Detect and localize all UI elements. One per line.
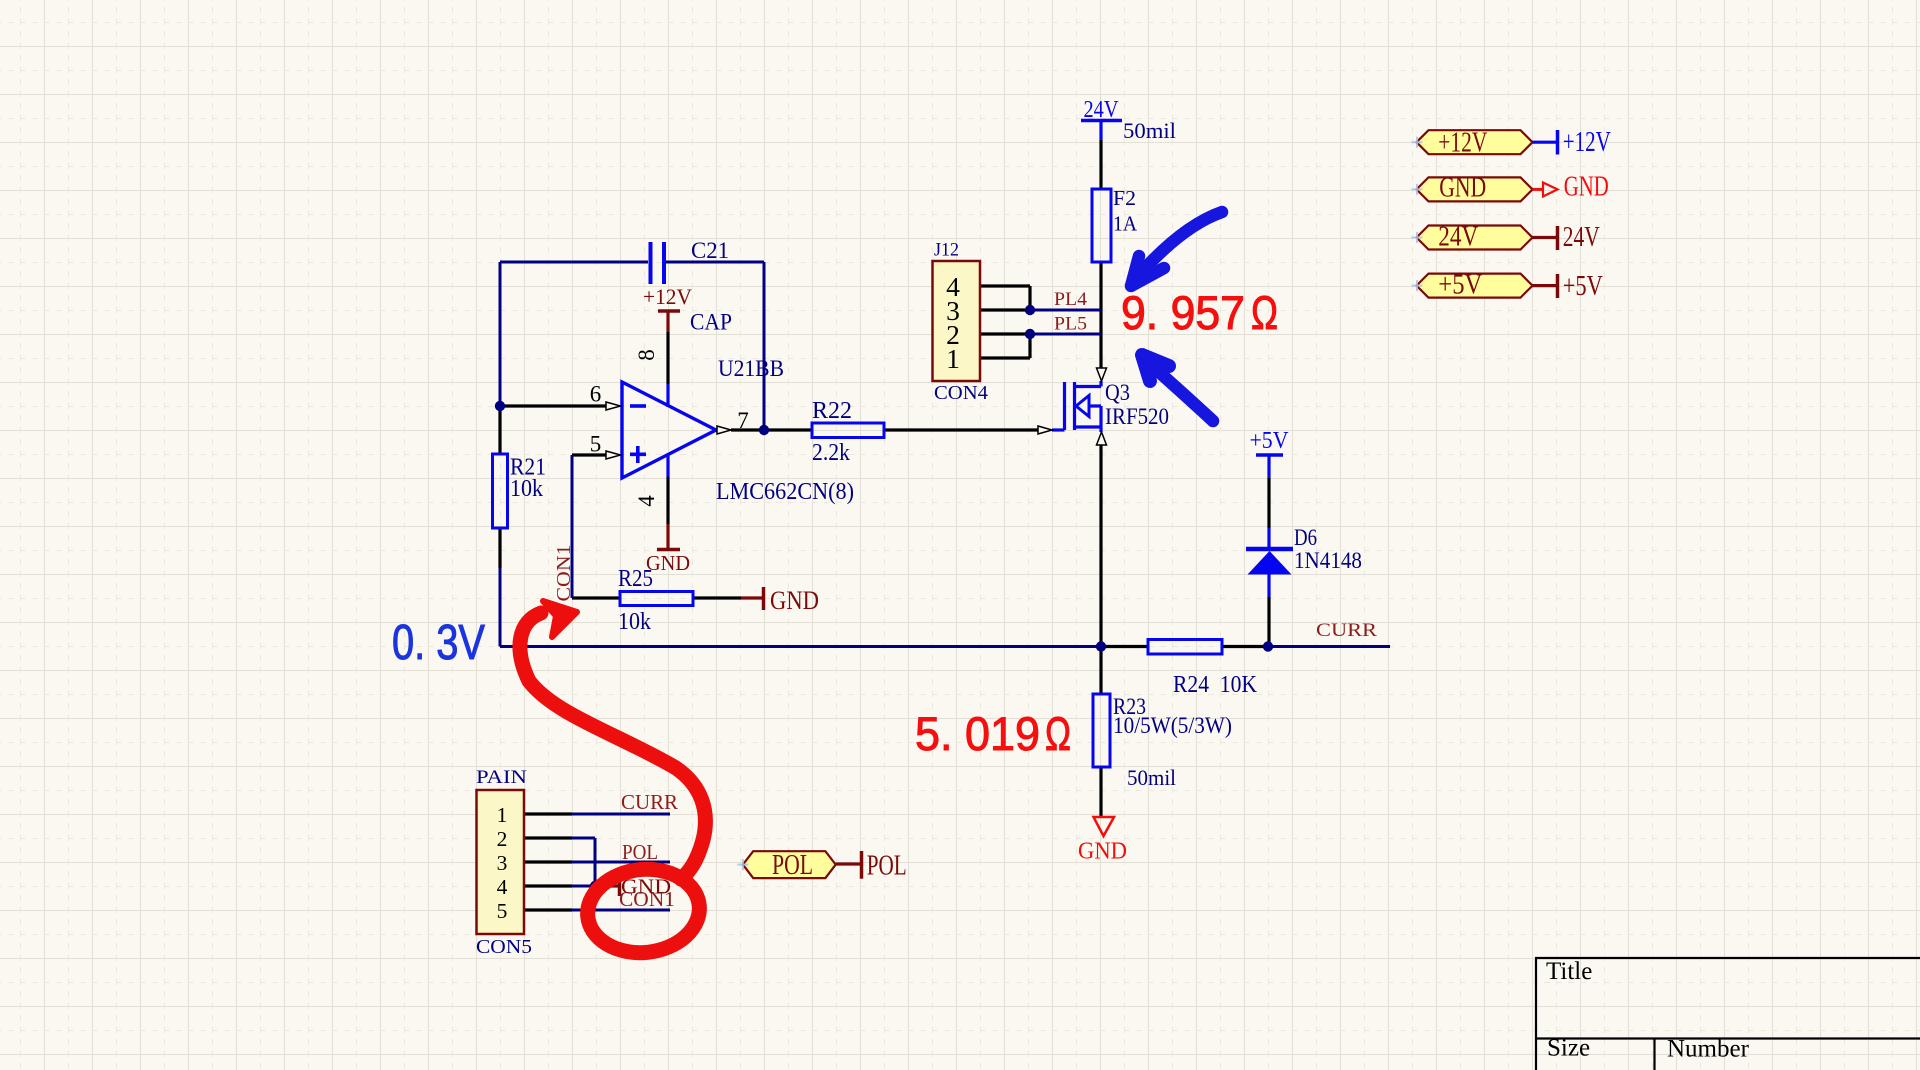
svg-text:+12V: +12V <box>1563 127 1611 158</box>
resistor R23 <box>1093 694 1110 767</box>
CON5 pin number 4 <box>497 875 508 899</box>
svg-text:GND: GND <box>770 586 819 615</box>
wire Q3 source down through junction to R23 (black) <box>1099 445 1102 694</box>
pin number 8 (rotated) <box>634 349 659 361</box>
svg-text:CURR: CURR <box>1316 620 1377 641</box>
power port GND (CON5 pin4) <box>595 875 671 899</box>
svg-text:10/5W(5/3W): 10/5W(5/3W) <box>1113 713 1232 738</box>
power port POL (bar) <box>836 851 907 882</box>
svg-text:+5V: +5V <box>1438 270 1482 301</box>
designator R25 <box>618 566 653 592</box>
svg-text:Number: Number <box>1667 1036 1750 1063</box>
svg-text:R25: R25 <box>618 566 653 592</box>
pin number 5 <box>590 432 602 457</box>
pin arrow Q3 drain <box>1097 368 1107 381</box>
pin arrow Q3 gate <box>1038 426 1052 434</box>
pin number 7 <box>737 408 749 433</box>
designator D6 <box>1294 525 1317 550</box>
J12 pin stubs (black) <box>980 286 1030 358</box>
svg-text:GND: GND <box>1078 838 1127 865</box>
designator J12 <box>934 240 959 261</box>
wire 0.3V main horizontal net (navy) <box>500 645 1390 648</box>
port GND (right) <box>1417 173 1533 204</box>
svg-text:2.2k: 2.2k <box>812 440 850 466</box>
diode D6 1N4148 <box>1246 528 1293 597</box>
svg-text:GND: GND <box>1564 172 1609 203</box>
svg-text:9. 957: 9. 957 <box>1121 286 1245 339</box>
power port GND (red arrow right) <box>1533 172 1609 203</box>
junction node CON5 pin2/pin4 <box>590 881 600 891</box>
svg-text:IRF520: IRF520 <box>1105 404 1169 429</box>
wire 24V to fuse F2 (black) <box>1099 140 1102 189</box>
annotation blue arrow 1 <box>1131 212 1222 286</box>
power port GND (opamp) <box>646 524 690 575</box>
svg-text:6: 6 <box>590 382 602 407</box>
svg-text:PAIN: PAIN <box>476 768 527 788</box>
svg-text:C21: C21 <box>691 238 729 263</box>
port POL <box>743 850 836 881</box>
wire PL4 (navy) <box>1030 309 1101 312</box>
annotation 5.019 ohm (red) <box>915 707 1071 760</box>
power port GND (R23, red arrow) <box>1078 817 1127 865</box>
J12 pin number 1 <box>946 343 960 374</box>
svg-text:CON4: CON4 <box>934 382 988 404</box>
value 1A <box>1113 212 1138 236</box>
designator PAIN <box>476 768 527 788</box>
svg-text:7: 7 <box>737 408 749 433</box>
resistor R25 <box>620 592 693 606</box>
annotation 9.957 ohm (red) <box>1121 286 1278 339</box>
svg-text:0. 3V: 0. 3V <box>392 616 485 670</box>
port +12V (right) <box>1417 128 1533 159</box>
CON5 pin number 3 <box>497 851 508 875</box>
value 10/5W(5/3W) <box>1113 713 1232 738</box>
svg-text:POL: POL <box>622 840 658 864</box>
value 10k (R25) <box>618 609 651 635</box>
wire pin5 stub (black) <box>572 453 606 456</box>
junction node D6 / CURR <box>1263 641 1273 651</box>
J12 pin number 2 <box>946 319 960 350</box>
port tip markers <box>737 137 1422 870</box>
svg-text:POL: POL <box>867 851 907 882</box>
net label CON1 (rotated) <box>553 545 575 602</box>
svg-text:50mil: 50mil <box>1123 118 1176 143</box>
label 50mil (bottom) <box>1127 765 1176 790</box>
designator+value R24 10K <box>1173 672 1258 698</box>
power port +5V (bar right) <box>1533 271 1603 302</box>
port +5V (right) <box>1417 270 1533 301</box>
svg-text:Ω: Ω <box>1045 707 1071 760</box>
svg-text:PL5: PL5 <box>1054 314 1087 335</box>
resistor R22 <box>812 423 884 438</box>
svg-text:1: 1 <box>946 343 960 374</box>
junction node Q3 source / R23 <box>1096 641 1106 651</box>
title block <box>1535 958 1920 1070</box>
svg-text:D6: D6 <box>1294 525 1317 550</box>
svg-text:+5V: +5V <box>1250 428 1290 454</box>
svg-text:1N4148: 1N4148 <box>1294 548 1362 573</box>
svg-text:PL4: PL4 <box>1054 289 1088 310</box>
net label PL5 <box>1054 314 1087 335</box>
power port GND (R25) <box>741 586 819 615</box>
pin number 6 <box>590 382 602 407</box>
svg-text:1: 1 <box>497 803 508 827</box>
designator R23 <box>1113 694 1146 719</box>
svg-text:5: 5 <box>497 899 508 923</box>
svg-text:F2: F2 <box>1113 186 1136 210</box>
svg-text:2: 2 <box>497 827 508 851</box>
annotation red circle <box>583 864 703 958</box>
CON5 pin number 5 <box>497 899 508 923</box>
svg-text:Ω: Ω <box>1251 286 1278 339</box>
svg-text:+12V: +12V <box>643 284 692 309</box>
annotation blue arrow 2 <box>1142 355 1213 421</box>
wire PL5 (navy) <box>1030 333 1101 336</box>
wire through R21 (black) <box>498 406 501 647</box>
annotation 0.3V (blue) <box>392 616 485 670</box>
CON5 pin stubs (black) <box>524 814 572 910</box>
wire CURR net horizontal black segments through R24 <box>1101 645 1268 648</box>
svg-text:5. 019: 5. 019 <box>915 707 1040 760</box>
connector CON5 (PAIN) <box>477 790 525 934</box>
svg-text:R24 10K: R24 10K <box>1173 672 1258 698</box>
wire pin6 net (black) <box>500 404 606 407</box>
svg-text:R22: R22 <box>812 398 852 424</box>
pin arrow Q3 source <box>1097 432 1107 445</box>
wire D6 leads black segments <box>1267 478 1270 646</box>
designator F2 <box>1113 186 1136 210</box>
pin number 4 (rotated) <box>634 495 659 507</box>
wire pin8 to +12V (black) <box>666 332 669 384</box>
J12 pin number 4 <box>946 271 960 302</box>
value 2.2k (R22) <box>812 440 850 466</box>
pin arrow opamp pin6 <box>606 402 621 410</box>
net label CURR (CON5) <box>621 790 678 814</box>
junction node PL4 <box>1025 305 1035 315</box>
designator R22 <box>812 398 852 424</box>
CON5 pin number 1 <box>497 803 508 827</box>
port 24V (right) <box>1417 222 1533 253</box>
value CAP <box>690 310 732 336</box>
svg-text:Size: Size <box>1547 1035 1590 1062</box>
svg-text:8: 8 <box>634 349 659 361</box>
net label POL (CON5) <box>622 840 658 864</box>
power port 24V (bar right) <box>1533 222 1600 253</box>
svg-text:GND: GND <box>1439 173 1486 204</box>
J12 pin number 3 <box>946 295 960 326</box>
junction node PL5 <box>1025 329 1035 339</box>
power port +12V (blue bar) <box>1533 127 1611 158</box>
svg-text:+12V: +12V <box>1438 128 1487 159</box>
designator U21BB <box>718 356 784 382</box>
wire R23 to GND arrow (black) <box>1099 767 1102 817</box>
pin arrow opamp pin7 output <box>717 426 731 434</box>
svg-text:LMC662CN(8): LMC662CN(8) <box>716 479 854 505</box>
designator C21 <box>691 238 729 263</box>
svg-text:4: 4 <box>634 495 659 507</box>
svg-text:Q3: Q3 <box>1105 380 1130 405</box>
value IRF520 <box>1105 404 1169 429</box>
svg-text:24V: 24V <box>1438 222 1478 253</box>
transistor Q3 IRF520 <box>1052 381 1101 432</box>
power port +12V (opamp) <box>643 284 692 332</box>
designator Q3 <box>1105 380 1130 405</box>
svg-text:24V: 24V <box>1084 97 1120 123</box>
connector J12 <box>933 261 981 381</box>
net label CURR (right) <box>1316 620 1377 641</box>
svg-text:3: 3 <box>497 851 508 875</box>
pin arrow opamp pin5 <box>606 451 621 459</box>
value CON5 <box>476 936 532 958</box>
net label CON1 (CON5) <box>619 887 675 911</box>
junction node opamp inverting input <box>495 401 505 411</box>
wire pin4 to GND (black) <box>666 476 669 524</box>
junction node opamp output <box>759 425 769 435</box>
value 1N4148 <box>1294 548 1362 573</box>
wire CON1 net vertical (navy) <box>571 455 574 598</box>
label 50mil (top) <box>1123 118 1176 143</box>
power port +5V (D6) <box>1250 428 1290 478</box>
svg-text:+5V: +5V <box>1563 271 1603 302</box>
designator R21 <box>510 455 546 481</box>
wire R25 side stubs (black) <box>572 596 741 599</box>
svg-text:10k: 10k <box>618 609 651 635</box>
wire C21 feedback loop (navy) <box>500 262 764 430</box>
svg-text:4: 4 <box>497 875 508 899</box>
power port 24V (top) <box>1081 97 1122 140</box>
svg-text:CON5: CON5 <box>476 936 532 958</box>
value LMC662CN(8) <box>716 479 854 505</box>
svg-text:CAP: CAP <box>690 310 732 336</box>
value CON4 <box>934 382 988 404</box>
svg-text:5: 5 <box>590 432 602 457</box>
svg-text:J12: J12 <box>934 240 959 261</box>
value 10k (R21) <box>510 476 543 502</box>
net label PL4 <box>1054 289 1088 310</box>
capacitor C21 <box>651 242 665 284</box>
resistor R24 <box>1148 640 1222 655</box>
wire fuse to Q3 drain (black) <box>1099 262 1102 368</box>
svg-text:1A: 1A <box>1113 212 1138 236</box>
svg-text:POL: POL <box>772 850 813 881</box>
CON5 net wires (navy) <box>572 814 670 910</box>
op-amp U21BB body <box>622 382 716 478</box>
fuse F2 <box>1092 189 1111 262</box>
svg-text:CON1: CON1 <box>553 545 575 602</box>
wire R22 to Q3 gate (black) <box>884 428 1038 431</box>
svg-text:Title: Title <box>1546 958 1592 985</box>
resistor R21 <box>493 454 508 528</box>
svg-text:24V: 24V <box>1563 222 1600 253</box>
svg-text:50mil: 50mil <box>1127 765 1176 790</box>
svg-text:U21BB: U21BB <box>718 356 784 382</box>
svg-text:10k: 10k <box>510 476 543 502</box>
CON5 pin number 2 <box>497 827 508 851</box>
wire opamp output to R22 (black) <box>731 428 812 431</box>
svg-text:CURR: CURR <box>621 790 678 814</box>
annotation red curve with arrowhead <box>520 601 705 879</box>
